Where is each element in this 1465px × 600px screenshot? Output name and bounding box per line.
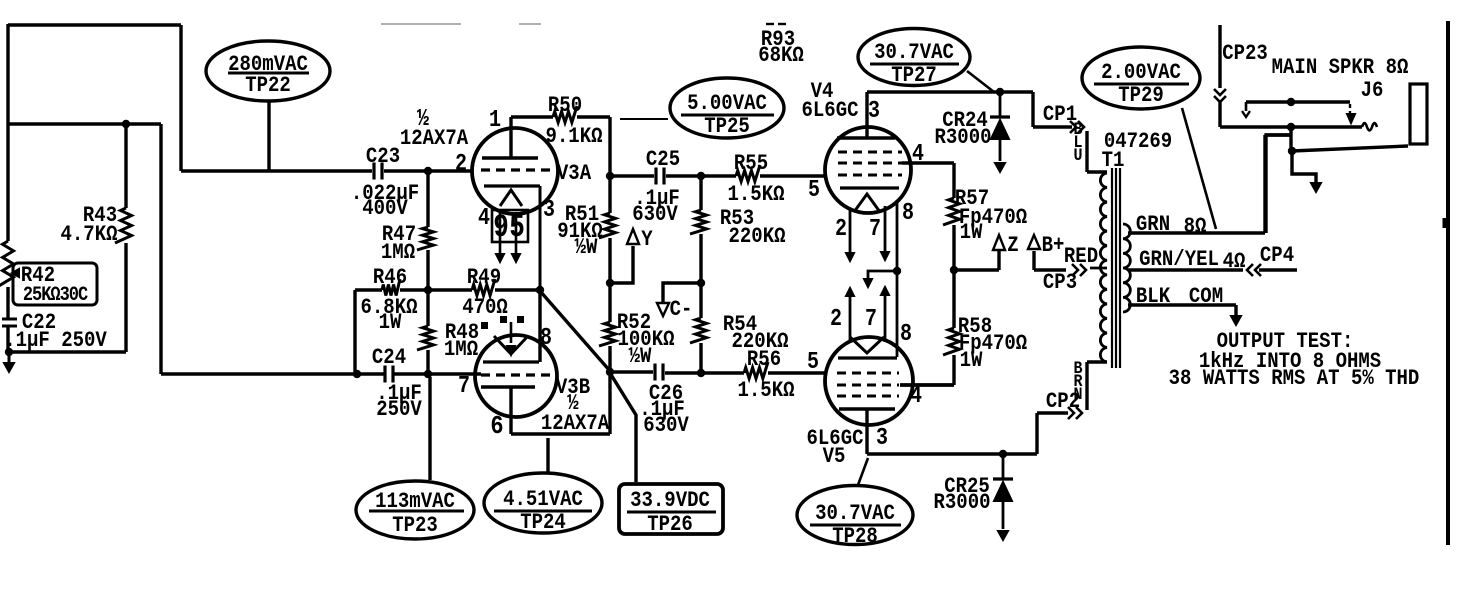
capacitor C22 [2, 318, 17, 321]
jack tip spring [1349, 104, 1351, 114]
node ground junction [5, 348, 13, 356]
svg-text:TP22: TP22 [245, 74, 291, 99]
svg-text:1W: 1W [379, 311, 402, 336]
wire Y stub [610, 246, 633, 283]
V3B heater pin marks [481, 322, 488, 329]
wire ground link to R43 [8, 350, 126, 353]
svg-text:TP28: TP28 [832, 525, 878, 550]
wire to CP2 [1035, 413, 1038, 454]
svg-text:30.7VAC: 30.7VAC [815, 502, 895, 527]
V5 grid dashed rows [837, 372, 899, 375]
V5 pin 4 lead [900, 383, 954, 386]
V4 cathode [840, 186, 899, 189]
node pin8 junction [893, 267, 901, 275]
svg-text:TP24: TP24 [520, 511, 566, 536]
V3A pin 1 lead [509, 117, 512, 158]
capacitor C24 [383, 366, 386, 383]
wire BLK COM tap [1128, 303, 1236, 306]
svg-text:4.51VAC: 4.51VAC [503, 488, 583, 513]
V3B cathode [483, 360, 539, 363]
svg-text:4: 4 [912, 141, 924, 168]
V3A heater chevron [500, 190, 522, 206]
wire C26 row [610, 370, 653, 373]
testpoint TP25 5.00VAC [670, 78, 784, 138]
wire to Z arrow [954, 268, 999, 271]
wire C25 row [610, 174, 654, 177]
wire top-left rail [8, 23, 181, 26]
V3B grid dashed [481, 373, 551, 376]
svg-text:BLK: BLK [1136, 285, 1171, 310]
wire C- stub [663, 283, 701, 303]
svg-text:400V: 400V [362, 197, 408, 222]
svg-text:68KΩ: 68KΩ [758, 44, 804, 69]
resistor R46 [355, 288, 382, 291]
svg-text:1.5KΩ: 1.5KΩ [738, 379, 795, 404]
wire faint top border dashes [381, 23, 461, 25]
svg-text:C23: C23 [366, 145, 400, 170]
svg-text:7: 7 [865, 306, 877, 333]
wire TP27 pointer [967, 71, 994, 92]
wire right border [1446, 21, 1450, 545]
svg-text:2: 2 [455, 151, 467, 178]
svg-text:5: 5 [807, 349, 819, 376]
svg-text:COM: COM [1189, 285, 1223, 310]
node R46 drop junction [353, 370, 361, 378]
wire diagonal to TP26 [610, 373, 636, 482]
svg-text:4Ω: 4Ω [1223, 250, 1246, 275]
transformer T1 primary winding [1100, 173, 1107, 362]
wire left rail upper [6, 24, 9, 241]
V3A grid dashed [481, 168, 551, 171]
V5 pin 3 lead [865, 409, 868, 454]
svg-text:TP29: TP29 [1118, 84, 1164, 109]
V4 pin 3 lead [865, 92, 868, 138]
V4 pin 4 lead [902, 161, 954, 164]
V3A heater leads [499, 212, 502, 254]
node C- off-page arrow [657, 303, 669, 316]
svg-text:12AX7A: 12AX7A [400, 127, 469, 152]
wire R93 stub dashes [766, 23, 774, 25]
svg-text:C24: C24 [372, 346, 406, 371]
wire plate to R50 [511, 115, 553, 118]
node C23/R47 junction [424, 167, 432, 175]
svg-text:R3000: R3000 [934, 491, 991, 516]
svg-text:38 WATTS RMS AT 5% THD: 38 WATTS RMS AT 5% THD [1169, 367, 1420, 392]
svg-text:630V: 630V [632, 203, 678, 228]
resistor R52 [599, 322, 616, 346]
svg-text:MAIN SPKR 8Ω: MAIN SPKR 8Ω [1272, 56, 1409, 81]
node CR24 junction [996, 88, 1004, 96]
svg-text:Y: Y [641, 228, 653, 253]
resistor R53 [699, 176, 702, 210]
node CP1 connector arrows [1070, 121, 1076, 133]
resistor R55 [701, 174, 736, 177]
V5 plate [839, 407, 895, 410]
V4 pin 8 lead [896, 202, 899, 271]
node R57/R58 junction [950, 266, 958, 274]
resistor R56 [701, 371, 744, 374]
svg-text:33.9VDC: 33.9VDC [630, 489, 710, 514]
node C26/pin6 junction [606, 368, 614, 376]
node R53 top junction [697, 172, 705, 180]
wire stub above C25 [620, 118, 668, 120]
svg-text:R55: R55 [734, 152, 768, 177]
tube V5 6L6GC envelope [825, 337, 913, 425]
capacitor C23 [372, 163, 375, 180]
resistor R43 [124, 124, 127, 208]
resistor R54 [699, 283, 702, 318]
transformer core laminations [1111, 168, 1113, 368]
svg-text:7: 7 [869, 216, 881, 243]
svg-text:30.7VAC: 30.7VAC [874, 41, 954, 66]
svg-text:R49: R49 [467, 266, 501, 291]
node ring junction [1288, 147, 1296, 155]
svg-text:Z: Z [1007, 234, 1018, 259]
wire bottom rail left [161, 372, 384, 375]
svg-text:CP3: CP3 [1043, 271, 1077, 296]
wire tip-ring link [1289, 127, 1292, 151]
svg-text:R56: R56 [747, 348, 781, 373]
V5 pin 2 lead [849, 297, 852, 341]
wire C23 row [181, 169, 372, 172]
node Y off-page arrow [627, 229, 639, 244]
svg-text:1W: 1W [960, 349, 983, 374]
node CR25 junction [999, 450, 1007, 458]
svg-text:5.00VAC: 5.00VAC [687, 92, 767, 117]
svg-text:25KΩ30C: 25KΩ30C [23, 284, 88, 307]
testpoint TP28 30.7VAC [797, 486, 913, 545]
wire pin8 bias stub [868, 271, 897, 279]
wire bottom rail right of C24 [394, 372, 481, 375]
resistor R47 [426, 171, 429, 227]
V4 heater chevron [854, 194, 880, 212]
V3B pin 8 lead from R49 junction [538, 290, 541, 362]
svg-text:2: 2 [835, 216, 847, 243]
svg-text:9.1KΩ: 9.1KΩ [546, 125, 603, 150]
svg-text:½W: ½W [575, 236, 598, 261]
svg-text:1W: 1W [960, 221, 983, 246]
resistor R58 [952, 270, 955, 328]
svg-text:1: 1 [489, 107, 501, 134]
svg-text:6: 6 [490, 413, 503, 442]
svg-text:CP1: CP1 [1043, 103, 1077, 128]
svg-text:8: 8 [902, 200, 914, 227]
V5 heater chevron [850, 337, 884, 353]
resistor R57 [952, 163, 955, 198]
svg-text:250V: 250V [376, 398, 422, 423]
testpoint TP27 30.7VAC [858, 29, 970, 86]
tube V3B envelope [475, 335, 557, 417]
svg-text:J6: J6 [1361, 79, 1384, 104]
svg-text:3: 3 [543, 197, 555, 224]
jack J6 body [1410, 84, 1427, 144]
jack tip terminal [1245, 102, 1248, 111]
wire jack tip row [1246, 100, 1350, 103]
tube V4 6L6GC envelope [825, 127, 911, 213]
wire CP23 drop [1218, 25, 1221, 88]
V3B heater chevron [494, 336, 528, 354]
wire branch y124 [8, 122, 161, 125]
svg-text:RED: RED [1064, 245, 1098, 270]
V3B heater arrow [510, 322, 513, 343]
svg-text:2: 2 [830, 306, 842, 333]
wire left rail mid [6, 287, 9, 319]
resistor R51 [599, 213, 616, 238]
R42 wiper arrow [12, 269, 19, 277]
V3A plate [482, 156, 538, 159]
svg-text:TP26: TP26 [647, 513, 693, 538]
tube V3A half 12AX7A envelope [472, 128, 558, 214]
svg-text:8Ω: 8Ω [1184, 215, 1207, 240]
node Z off-page arrow [993, 235, 1005, 250]
svg-text:N: N [1073, 384, 1082, 404]
svg-text:TP23: TP23 [392, 514, 438, 539]
node C26 right junction [697, 369, 705, 377]
testpoint TP23 113mVAC [356, 481, 474, 539]
node CP2 connector arrows [1068, 407, 1074, 419]
wire TP22 drop [267, 101, 270, 171]
node B+ off-page arrow [1028, 235, 1040, 249]
wire pin6 row [511, 432, 610, 435]
jack switch contact squiggle [1362, 123, 1377, 131]
testpoint TP24 4.51VAC [484, 473, 602, 533]
node C25 junction [606, 172, 614, 180]
V5 pin 7 lead [884, 296, 887, 342]
svg-text:4.7KΩ: 4.7KΩ [61, 223, 118, 248]
svg-text:7: 7 [458, 373, 470, 400]
svg-text:3: 3 [868, 98, 880, 125]
svg-text:R50: R50 [548, 94, 582, 119]
node CP3 connector arrows [1072, 264, 1078, 276]
svg-text:R3000: R3000 [935, 126, 992, 151]
capacitor C25 [654, 168, 657, 185]
svg-text:1MΩ: 1MΩ [381, 241, 415, 266]
svg-text:C25: C25 [646, 148, 680, 173]
svg-text:CP23: CP23 [1222, 42, 1268, 67]
V5 cathode [838, 356, 897, 359]
svg-text:U: U [1073, 145, 1082, 165]
wire TP29 pointer [1182, 108, 1216, 229]
wire jack ground [1292, 151, 1316, 184]
ground symbol [8, 352, 11, 364]
svg-text:V3A: V3A [557, 162, 592, 187]
svg-text:8: 8 [900, 321, 912, 348]
wire GRN/YEL 4ohm tap [1128, 268, 1243, 271]
testpoint TP26 box 33.9VDC [619, 484, 723, 534]
wire CP4 lead [1259, 268, 1297, 271]
svg-text:B+: B+ [1042, 234, 1065, 259]
wire BRN lead [1087, 360, 1107, 363]
svg-text:6L6GC: 6L6GC [802, 99, 859, 124]
V4 plate [837, 136, 895, 139]
node tip junction [1287, 98, 1295, 106]
svg-text:4: 4 [478, 205, 490, 232]
svg-text:220KΩ: 220KΩ [729, 225, 786, 250]
node R46/R47/R48/R49 junction [424, 286, 432, 294]
node Y junction [606, 279, 614, 287]
wire vertical from top rail [179, 25, 182, 171]
right border tick [1443, 218, 1450, 228]
transformer T1 secondary winding [1123, 224, 1130, 312]
wire R50 to R51 rail [608, 117, 611, 213]
resistor R49 [428, 288, 472, 291]
resistor R50 [553, 106, 577, 123]
svg-text:8: 8 [540, 325, 552, 352]
wire TP23 drop [428, 377, 431, 480]
svg-text:GRN/YEL: GRN/YEL [1139, 248, 1219, 273]
svg-text:1MΩ: 1MΩ [444, 338, 478, 363]
node main junction [1287, 123, 1295, 131]
V3A cathode [484, 184, 540, 187]
wire ring row [1292, 146, 1408, 151]
svg-text:12AX7A: 12AX7A [541, 412, 610, 437]
svg-text:1.5KΩ: 1.5KΩ [728, 183, 785, 208]
testpoint TP22 280mVAC [206, 41, 330, 101]
svg-text:250V: 250V [61, 329, 107, 354]
V4 pin 7 lead [884, 206, 887, 251]
capacitor C26 [653, 364, 656, 381]
node R49/cathode junction [536, 286, 544, 294]
wire vertical rail to bottom [159, 124, 162, 374]
svg-text:630V: 630V [643, 414, 689, 439]
svg-text:2.00VAC: 2.00VAC [1101, 61, 1181, 86]
node CP23 connector arrows [1214, 89, 1226, 95]
svg-text:R46: R46 [373, 266, 407, 291]
resistor R48 [426, 290, 429, 326]
wire RED center tap [1090, 267, 1107, 270]
svg-text:½W: ½W [629, 345, 652, 370]
svg-text:V5: V5 [823, 445, 846, 470]
svg-text:TP27: TP27 [891, 64, 937, 89]
node R43 top junction [122, 120, 130, 128]
wire R46 left drop [353, 290, 356, 374]
V3A heater arrows [496, 254, 504, 262]
svg-text:CP4: CP4 [1260, 244, 1294, 269]
potentiometer R42 [0, 241, 14, 287]
diode CR25 [1002, 454, 1005, 479]
node CP4 connector arrows [1247, 264, 1253, 276]
svg-text:3: 3 [876, 425, 888, 452]
wire GRN 8ohm tap [1128, 231, 1265, 234]
diode CR24 [999, 92, 1002, 117]
node C24/R48/pin7 junction [424, 370, 432, 378]
wire TP28 pointer [858, 458, 868, 485]
wire BLU lead [1085, 131, 1088, 172]
wire step to GRN [1266, 135, 1291, 233]
svg-text:GRN: GRN [1136, 213, 1170, 238]
V3B plate [481, 385, 535, 388]
testpoint TP29 2.00VAC [1082, 47, 1200, 109]
wire diagonal R49 junction to C26 junction [540, 291, 610, 371]
wire B+ to CP3 [1032, 251, 1035, 270]
svg-text:5: 5 [808, 177, 820, 204]
svg-text:C-: C- [670, 298, 693, 323]
V4 pin 2 lead [849, 209, 852, 252]
wire V5 plate row [867, 452, 1037, 455]
wire pin8 to V5 pin8 [896, 271, 899, 357]
node C- junction [697, 279, 705, 287]
wire V4 plate to CP1 corner [867, 90, 1033, 93]
V3A pin 3 cathode lead [539, 186, 542, 290]
V3A heater pins box 9 5 [492, 210, 528, 242]
wire TP24 drop [546, 438, 549, 474]
R42 value box [13, 263, 97, 305]
svg-text:TP25: TP25 [704, 115, 750, 140]
wire jack main row [1220, 125, 1362, 128]
V3B pin 6 lead [509, 387, 512, 434]
V4 grid dashed rows [838, 151, 902, 154]
